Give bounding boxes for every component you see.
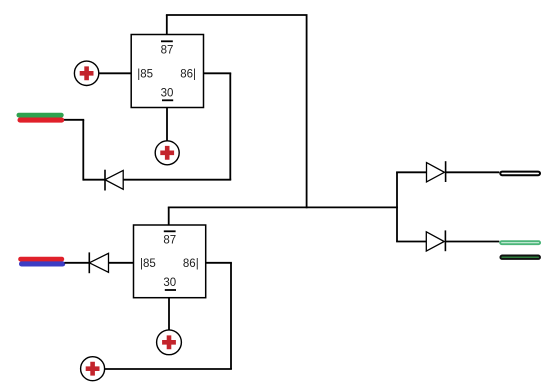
wire D2 to K2 pin 85 xyxy=(109,262,134,264)
wire marker M2 red stripe xyxy=(18,257,64,262)
battery symbol B2 plus xyxy=(160,146,174,160)
battery symbol B2 circle xyxy=(155,141,179,165)
diode D4 triangle xyxy=(426,232,444,251)
wire K1 pin 30 down xyxy=(166,108,168,142)
diode D2 cathode bar xyxy=(88,252,90,273)
diode D4 cathode bar xyxy=(444,230,446,251)
battery symbol B1 circle xyxy=(74,61,98,85)
wire K2 pin 30 down xyxy=(168,298,170,330)
diode D1 cathode bar xyxy=(104,170,106,191)
wire D3 to marker M3 xyxy=(446,171,500,173)
wire marker M1 red stripe xyxy=(18,118,65,123)
diode D1 triangle xyxy=(105,170,123,189)
svg-text:30: 30 xyxy=(161,87,174,99)
svg-text:30: 30 xyxy=(163,277,176,289)
relay K1 body xyxy=(131,35,203,108)
wire bottom horizontal xyxy=(105,368,232,370)
wire marker M4 green tube xyxy=(500,241,540,244)
battery symbol B3 circle xyxy=(157,330,182,355)
wire down right side of K2 xyxy=(230,263,232,369)
wire K1 pin 86 right xyxy=(204,72,232,74)
wire D1 to corner xyxy=(83,179,105,181)
svg-text:87: 87 xyxy=(163,234,176,246)
wire up to marker M1 xyxy=(82,120,84,181)
wire top horizontal xyxy=(166,14,308,16)
wire branch to D3 xyxy=(396,171,426,173)
wire mid horizontal bus xyxy=(168,206,398,208)
wire marker M2 blue stripe xyxy=(19,261,65,266)
wire branch to D4 xyxy=(396,241,426,243)
relay K2 pin 30 terminal bar xyxy=(165,289,176,291)
wire K1 pin 87 up xyxy=(166,15,168,35)
wire B1 to K1 pin 85 xyxy=(99,72,131,74)
battery symbol B4 circle xyxy=(81,357,105,381)
wire marker M1 green stripe xyxy=(17,113,64,118)
wire K2 pin 87 up xyxy=(168,207,170,225)
diode D3 cathode bar xyxy=(445,161,447,182)
svg-text:86|: 86| xyxy=(180,68,196,80)
wire right vertical from top xyxy=(306,15,308,208)
wire down right side of K1 xyxy=(229,73,231,179)
relay K1 pin 30 terminal bar xyxy=(162,99,173,101)
wire right junction vertical xyxy=(396,172,398,241)
wire K2 pin 86 right xyxy=(206,262,232,264)
relay K2 body xyxy=(134,225,206,298)
svg-text:|85: |85 xyxy=(137,68,153,80)
battery symbol B4 plus xyxy=(86,362,100,376)
wire marker M3 black/white tube xyxy=(500,172,540,176)
svg-text:87: 87 xyxy=(161,44,174,56)
diode D3 triangle xyxy=(427,163,445,182)
wire marker M5 black/green tube xyxy=(500,256,540,259)
svg-text:86|: 86| xyxy=(183,258,199,270)
svg-text:|85: |85 xyxy=(140,258,156,270)
relay K2 pin 87 terminal bar xyxy=(164,230,176,232)
wire D4 to marker M4 xyxy=(445,241,499,243)
relay K1 pin 87 terminal bar xyxy=(161,40,173,42)
battery symbol B1 plus xyxy=(80,66,94,80)
diode D2 triangle xyxy=(89,253,108,272)
wire marker M1 lead xyxy=(63,119,84,121)
wire marker M2 lead xyxy=(65,262,90,264)
wire to diode D1 cathode side xyxy=(123,179,231,181)
battery symbol B3 plus xyxy=(162,335,176,349)
